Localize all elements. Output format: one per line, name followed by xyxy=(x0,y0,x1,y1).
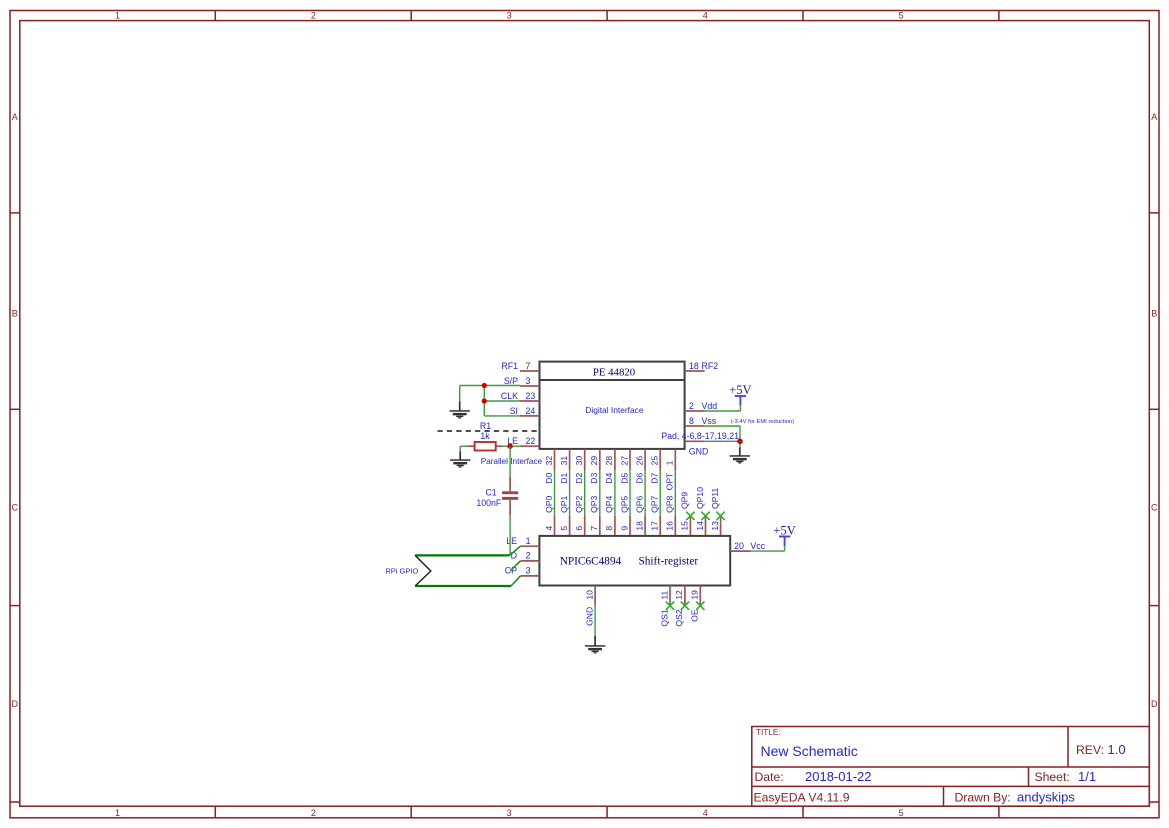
svg-text:QP5: QP5 xyxy=(619,495,629,512)
pin 19 OE of U2 (no connect) xyxy=(690,586,701,622)
pin 24 SI of U1 xyxy=(510,406,540,416)
svg-text:Shift-register: Shift-register xyxy=(638,556,698,568)
pin 3 S/P of U1 xyxy=(504,376,540,386)
title block Sheet divider xyxy=(1028,767,1030,786)
svg-text:4: 4 xyxy=(703,808,708,818)
border column labels top xyxy=(115,11,904,21)
svg-text:A: A xyxy=(1151,112,1157,122)
svg-text:5: 5 xyxy=(899,808,904,818)
border row tick marks xyxy=(10,213,1159,802)
svg-text:3: 3 xyxy=(507,11,512,21)
svg-text:D0: D0 xyxy=(544,472,554,483)
svg-text:D2: D2 xyxy=(574,472,584,483)
chip U1 PE 44820 body xyxy=(540,362,685,449)
svg-text:15: 15 xyxy=(680,521,690,531)
svg-text:D5: D5 xyxy=(619,472,629,483)
pin 2 D of U2 xyxy=(511,551,540,561)
svg-text:4: 4 xyxy=(544,526,554,531)
svg-text:Pad, 4-6,8-17,19,21: Pad, 4-6,8-17,19,21 xyxy=(661,431,739,441)
wire D4 to QP4 xyxy=(614,470,616,516)
pin 4 QP0 of U2 xyxy=(544,495,555,535)
pin 8 QP4 of U2 xyxy=(604,495,615,535)
svg-text:GND: GND xyxy=(584,607,594,626)
pin 17 QP7 of U2 xyxy=(650,495,661,535)
svg-text:S/P: S/P xyxy=(504,376,518,386)
svg-text:7: 7 xyxy=(589,526,599,531)
no-connect X on QS1 xyxy=(666,602,674,610)
pin Pad 4-6,8-17,19,21 of U1 xyxy=(661,431,739,441)
svg-text:18: 18 xyxy=(634,521,644,531)
svg-text:C: C xyxy=(1151,503,1158,513)
svg-text:7: 7 xyxy=(526,361,531,371)
pin 6 QP2 of U2 xyxy=(574,495,585,535)
wire junction vertical S/P to SI xyxy=(483,386,485,416)
svg-text:QP3: QP3 xyxy=(589,495,599,512)
svg-text:3: 3 xyxy=(526,376,531,386)
svg-text:C1: C1 xyxy=(485,488,496,498)
no-connect X on OE xyxy=(696,602,704,610)
pin 18 QP6 of U2 xyxy=(634,495,645,535)
wire D7 to QP7 xyxy=(659,470,661,516)
svg-text:RF2: RF2 xyxy=(702,361,719,371)
wire D5 to QP5 xyxy=(629,470,631,516)
wire diagonal from D pin 2 xyxy=(510,561,520,571)
svg-text:Vdd: Vdd xyxy=(702,401,718,411)
svg-text:11: 11 xyxy=(659,590,669,599)
svg-text:LE: LE xyxy=(506,536,517,546)
svg-text:QP2: QP2 xyxy=(574,495,584,512)
svg-text:13: 13 xyxy=(710,521,720,531)
wire Pad pin to ground xyxy=(705,441,740,447)
svg-text:Vcc: Vcc xyxy=(750,541,765,551)
svg-text:18: 18 xyxy=(689,361,699,371)
svg-text:C: C xyxy=(12,503,19,513)
wire diagonal to LE pin 1 xyxy=(510,546,521,555)
svg-text:3: 3 xyxy=(507,808,512,818)
junction on LE net xyxy=(507,444,512,449)
svg-text:Digital Interface: Digital Interface xyxy=(585,405,644,415)
pin 1 OPT of U1 xyxy=(665,449,676,490)
pin 11 QS1 of U2 (no connect) xyxy=(659,586,670,627)
svg-text:9: 9 xyxy=(619,526,629,531)
svg-text:+5V: +5V xyxy=(773,523,795,537)
svg-text:R1: R1 xyxy=(480,421,491,431)
svg-text:Date:: Date: xyxy=(755,770,784,784)
svg-text:5: 5 xyxy=(559,526,569,531)
svg-text:27: 27 xyxy=(619,456,629,466)
svg-text:2: 2 xyxy=(311,11,316,21)
svg-text:(-3.4V for EMI reduction): (-3.4V for EMI reduction) xyxy=(731,419,795,425)
pin 29 D3 of U1 xyxy=(589,449,600,484)
svg-text:1: 1 xyxy=(115,808,120,818)
svg-text:8: 8 xyxy=(604,526,614,531)
svg-text:100nF: 100nF xyxy=(476,498,502,508)
svg-text:28: 28 xyxy=(604,456,614,466)
svg-text:QP1: QP1 xyxy=(559,495,569,512)
ground for R1 xyxy=(450,451,470,467)
pin 12 QS2 of U2 (no connect) xyxy=(674,586,685,627)
svg-text:24: 24 xyxy=(526,406,536,416)
wire +5V to Vdd xyxy=(705,406,741,411)
svg-text:+5V: +5V xyxy=(729,383,751,397)
svg-text:29: 29 xyxy=(589,456,599,466)
ground for S/P net xyxy=(450,401,470,418)
wire ground riser to S/P xyxy=(459,386,461,402)
ground for U2 GND pin xyxy=(585,636,605,654)
dashed partition line xyxy=(438,430,540,432)
no-connect X on QP9 xyxy=(686,512,694,520)
svg-text:RPi GPIO: RPi GPIO xyxy=(385,567,418,576)
junction on GND net xyxy=(737,439,743,445)
svg-text:QP0: QP0 xyxy=(544,495,554,512)
svg-text:25: 25 xyxy=(650,456,660,466)
svg-text:D1: D1 xyxy=(559,472,569,483)
pin 14 QP10 of U2 (no connect) xyxy=(695,487,706,536)
svg-text:10: 10 xyxy=(584,590,594,600)
svg-text:22: 22 xyxy=(526,436,536,446)
title block outline xyxy=(752,727,1150,807)
svg-text:QP11: QP11 xyxy=(710,487,720,509)
svg-text:QP6: QP6 xyxy=(634,495,644,512)
wire R1 right to LE pin xyxy=(503,445,521,447)
pin 7 RF1 of U1 xyxy=(501,361,539,371)
svg-text:OE: OE xyxy=(690,609,700,622)
ground for Pad pin xyxy=(730,447,750,463)
pin 27 D5 of U1 xyxy=(619,449,630,484)
svg-text:D6: D6 xyxy=(634,472,644,483)
title block REV divider xyxy=(1067,727,1069,768)
pin 13 QP11 of U2 (no connect) xyxy=(710,487,721,535)
svg-text:2018-01-22: 2018-01-22 xyxy=(805,769,872,784)
power flag +5V for Vdd xyxy=(729,383,751,406)
wire +5V to Vcc xyxy=(750,546,784,551)
pin 31 D1 of U1 xyxy=(559,449,570,484)
svg-text:TITLE:: TITLE: xyxy=(756,728,781,737)
svg-text:B: B xyxy=(12,308,18,318)
svg-text:New Schematic: New Schematic xyxy=(761,743,858,759)
pin 15 QP9 of U2 (no connect) xyxy=(680,492,691,536)
svg-text:QS2: QS2 xyxy=(674,609,684,626)
title block row divider 2 xyxy=(752,785,1150,787)
border column labels bottom xyxy=(115,808,904,818)
no-connect X on QS2 xyxy=(681,602,689,610)
svg-text:14: 14 xyxy=(695,521,705,531)
pin 30 D2 of U1 xyxy=(574,449,585,484)
svg-text:2: 2 xyxy=(311,808,316,818)
pin 5 QP1 of U2 xyxy=(559,495,570,535)
wire S/P net horizontal xyxy=(460,385,520,387)
chip U1 title separator xyxy=(540,379,685,381)
svg-text:Parallel Interface: Parallel Interface xyxy=(481,457,543,466)
svg-text:QP7: QP7 xyxy=(650,495,660,512)
svg-text:3: 3 xyxy=(526,566,531,576)
wire OPT to QP8 xyxy=(674,470,676,516)
svg-text:D: D xyxy=(12,699,19,709)
capacitor C1 100nF xyxy=(476,476,518,515)
wire GND pin of U2 to ground xyxy=(594,606,596,636)
resistor R1 1k xyxy=(467,421,503,450)
border column tick marks xyxy=(215,11,999,818)
svg-text:QP9: QP9 xyxy=(680,492,690,509)
svg-text:16: 16 xyxy=(665,521,675,531)
svg-text:D3: D3 xyxy=(589,472,599,483)
svg-text:31: 31 xyxy=(559,456,569,466)
svg-text:30: 30 xyxy=(574,456,584,466)
svg-text:5: 5 xyxy=(899,11,904,21)
wire LE junction down to C1 xyxy=(509,446,511,476)
svg-text:2: 2 xyxy=(689,401,694,411)
svg-text:GND: GND xyxy=(689,447,709,457)
junction on S/P net xyxy=(482,383,487,388)
svg-text:6: 6 xyxy=(574,526,584,531)
svg-text:D7: D7 xyxy=(650,472,660,483)
svg-text:20: 20 xyxy=(734,541,744,551)
wire D0 to QP0 xyxy=(554,470,556,516)
svg-text:D4: D4 xyxy=(604,472,614,483)
svg-text:NPIC6C4894: NPIC6C4894 xyxy=(560,556,622,568)
wire R1 left to ground xyxy=(460,446,467,451)
pin 8 Vss of U1 xyxy=(685,416,717,426)
svg-text:2: 2 xyxy=(526,551,531,561)
border row labels left xyxy=(12,112,19,709)
pin 10 GND of U2 xyxy=(584,586,595,626)
wire D3 to QP3 xyxy=(599,470,601,516)
svg-text:A: A xyxy=(12,112,18,122)
wire D1 to QP1 xyxy=(569,470,571,516)
svg-text:OPT: OPT xyxy=(665,472,675,490)
pin 16 QP8 of U2 xyxy=(665,495,676,535)
svg-text:8: 8 xyxy=(689,416,694,426)
pin 2 Vdd of U1 xyxy=(685,401,718,411)
svg-text:1k: 1k xyxy=(480,431,490,441)
svg-text:REV:: REV: xyxy=(1076,743,1104,757)
wire SI net xyxy=(484,415,520,417)
svg-text:Sheet:: Sheet: xyxy=(1035,770,1070,784)
svg-text:Vss: Vss xyxy=(702,416,717,426)
pin 20 Vcc of U2 xyxy=(730,541,765,551)
pin 18 RF2 of U1 xyxy=(685,361,719,371)
svg-text:12: 12 xyxy=(674,590,684,600)
pin 32 D0 of U1 xyxy=(544,449,555,484)
svg-text:26: 26 xyxy=(634,456,644,466)
wire D6 to QP6 xyxy=(644,470,646,516)
svg-text:32: 32 xyxy=(544,456,554,466)
svg-text:1: 1 xyxy=(665,460,675,465)
svg-text:1.0: 1.0 xyxy=(1108,742,1126,757)
power flag +5V for Vcc xyxy=(773,523,795,546)
pin 3 CP of U2 xyxy=(505,566,540,576)
pin 7 QP3 of U2 xyxy=(589,495,600,535)
wire diagonal to CP pin 3 xyxy=(511,576,520,586)
port RPi GPIO chevron xyxy=(415,555,431,586)
svg-text:Drawn By:: Drawn By: xyxy=(955,790,1011,804)
svg-text:PE 44820: PE 44820 xyxy=(593,366,635,378)
pin 9 QP5 of U2 xyxy=(619,495,630,535)
pin 1 LE of U2 xyxy=(506,536,539,546)
junction on CLK net xyxy=(482,398,487,403)
svg-text:1: 1 xyxy=(526,536,531,546)
no-connect X on QP11 xyxy=(716,512,724,520)
no-connect X on QP10 xyxy=(701,512,709,520)
svg-text:1: 1 xyxy=(115,11,120,21)
svg-text:B: B xyxy=(1151,308,1157,318)
pin 23 CLK of U1 xyxy=(501,391,540,401)
svg-text:EasyEDA V4.11.9: EasyEDA V4.11.9 xyxy=(754,790,850,804)
wire Vss net xyxy=(705,426,740,441)
bus wire RPi GPIO bottom xyxy=(415,585,511,587)
chip U2 NPIC6C4894 body xyxy=(539,536,730,586)
border row labels right xyxy=(1151,112,1158,709)
svg-text:QP4: QP4 xyxy=(604,495,614,512)
svg-text:andyskips: andyskips xyxy=(1017,789,1075,804)
svg-text:RF1: RF1 xyxy=(501,361,518,371)
svg-text:19: 19 xyxy=(690,590,700,600)
svg-text:4: 4 xyxy=(703,11,708,21)
wire CLK net xyxy=(484,400,520,402)
svg-text:QP8: QP8 xyxy=(665,495,675,512)
title block row divider 1 xyxy=(752,766,1150,768)
svg-text:17: 17 xyxy=(650,521,660,531)
pin 22 LE of U1 xyxy=(507,436,539,446)
wire C1 to LE of U2 xyxy=(509,516,511,556)
bus wire RPi GPIO top xyxy=(415,554,510,556)
svg-text:QS1: QS1 xyxy=(659,609,669,626)
pin 26 D6 of U1 xyxy=(634,449,645,484)
pin 28 D4 of U1 xyxy=(604,449,615,484)
svg-text:SI: SI xyxy=(510,406,518,416)
pin 25 D7 of U1 xyxy=(650,449,661,484)
title block DrawnBy divider xyxy=(943,786,945,806)
svg-text:QP10: QP10 xyxy=(695,487,705,509)
svg-text:1/1: 1/1 xyxy=(1078,769,1096,784)
svg-text:CLK: CLK xyxy=(501,391,518,401)
svg-text:D: D xyxy=(1151,699,1158,709)
svg-text:23: 23 xyxy=(526,391,536,401)
wire D2 to QP2 xyxy=(584,470,586,516)
